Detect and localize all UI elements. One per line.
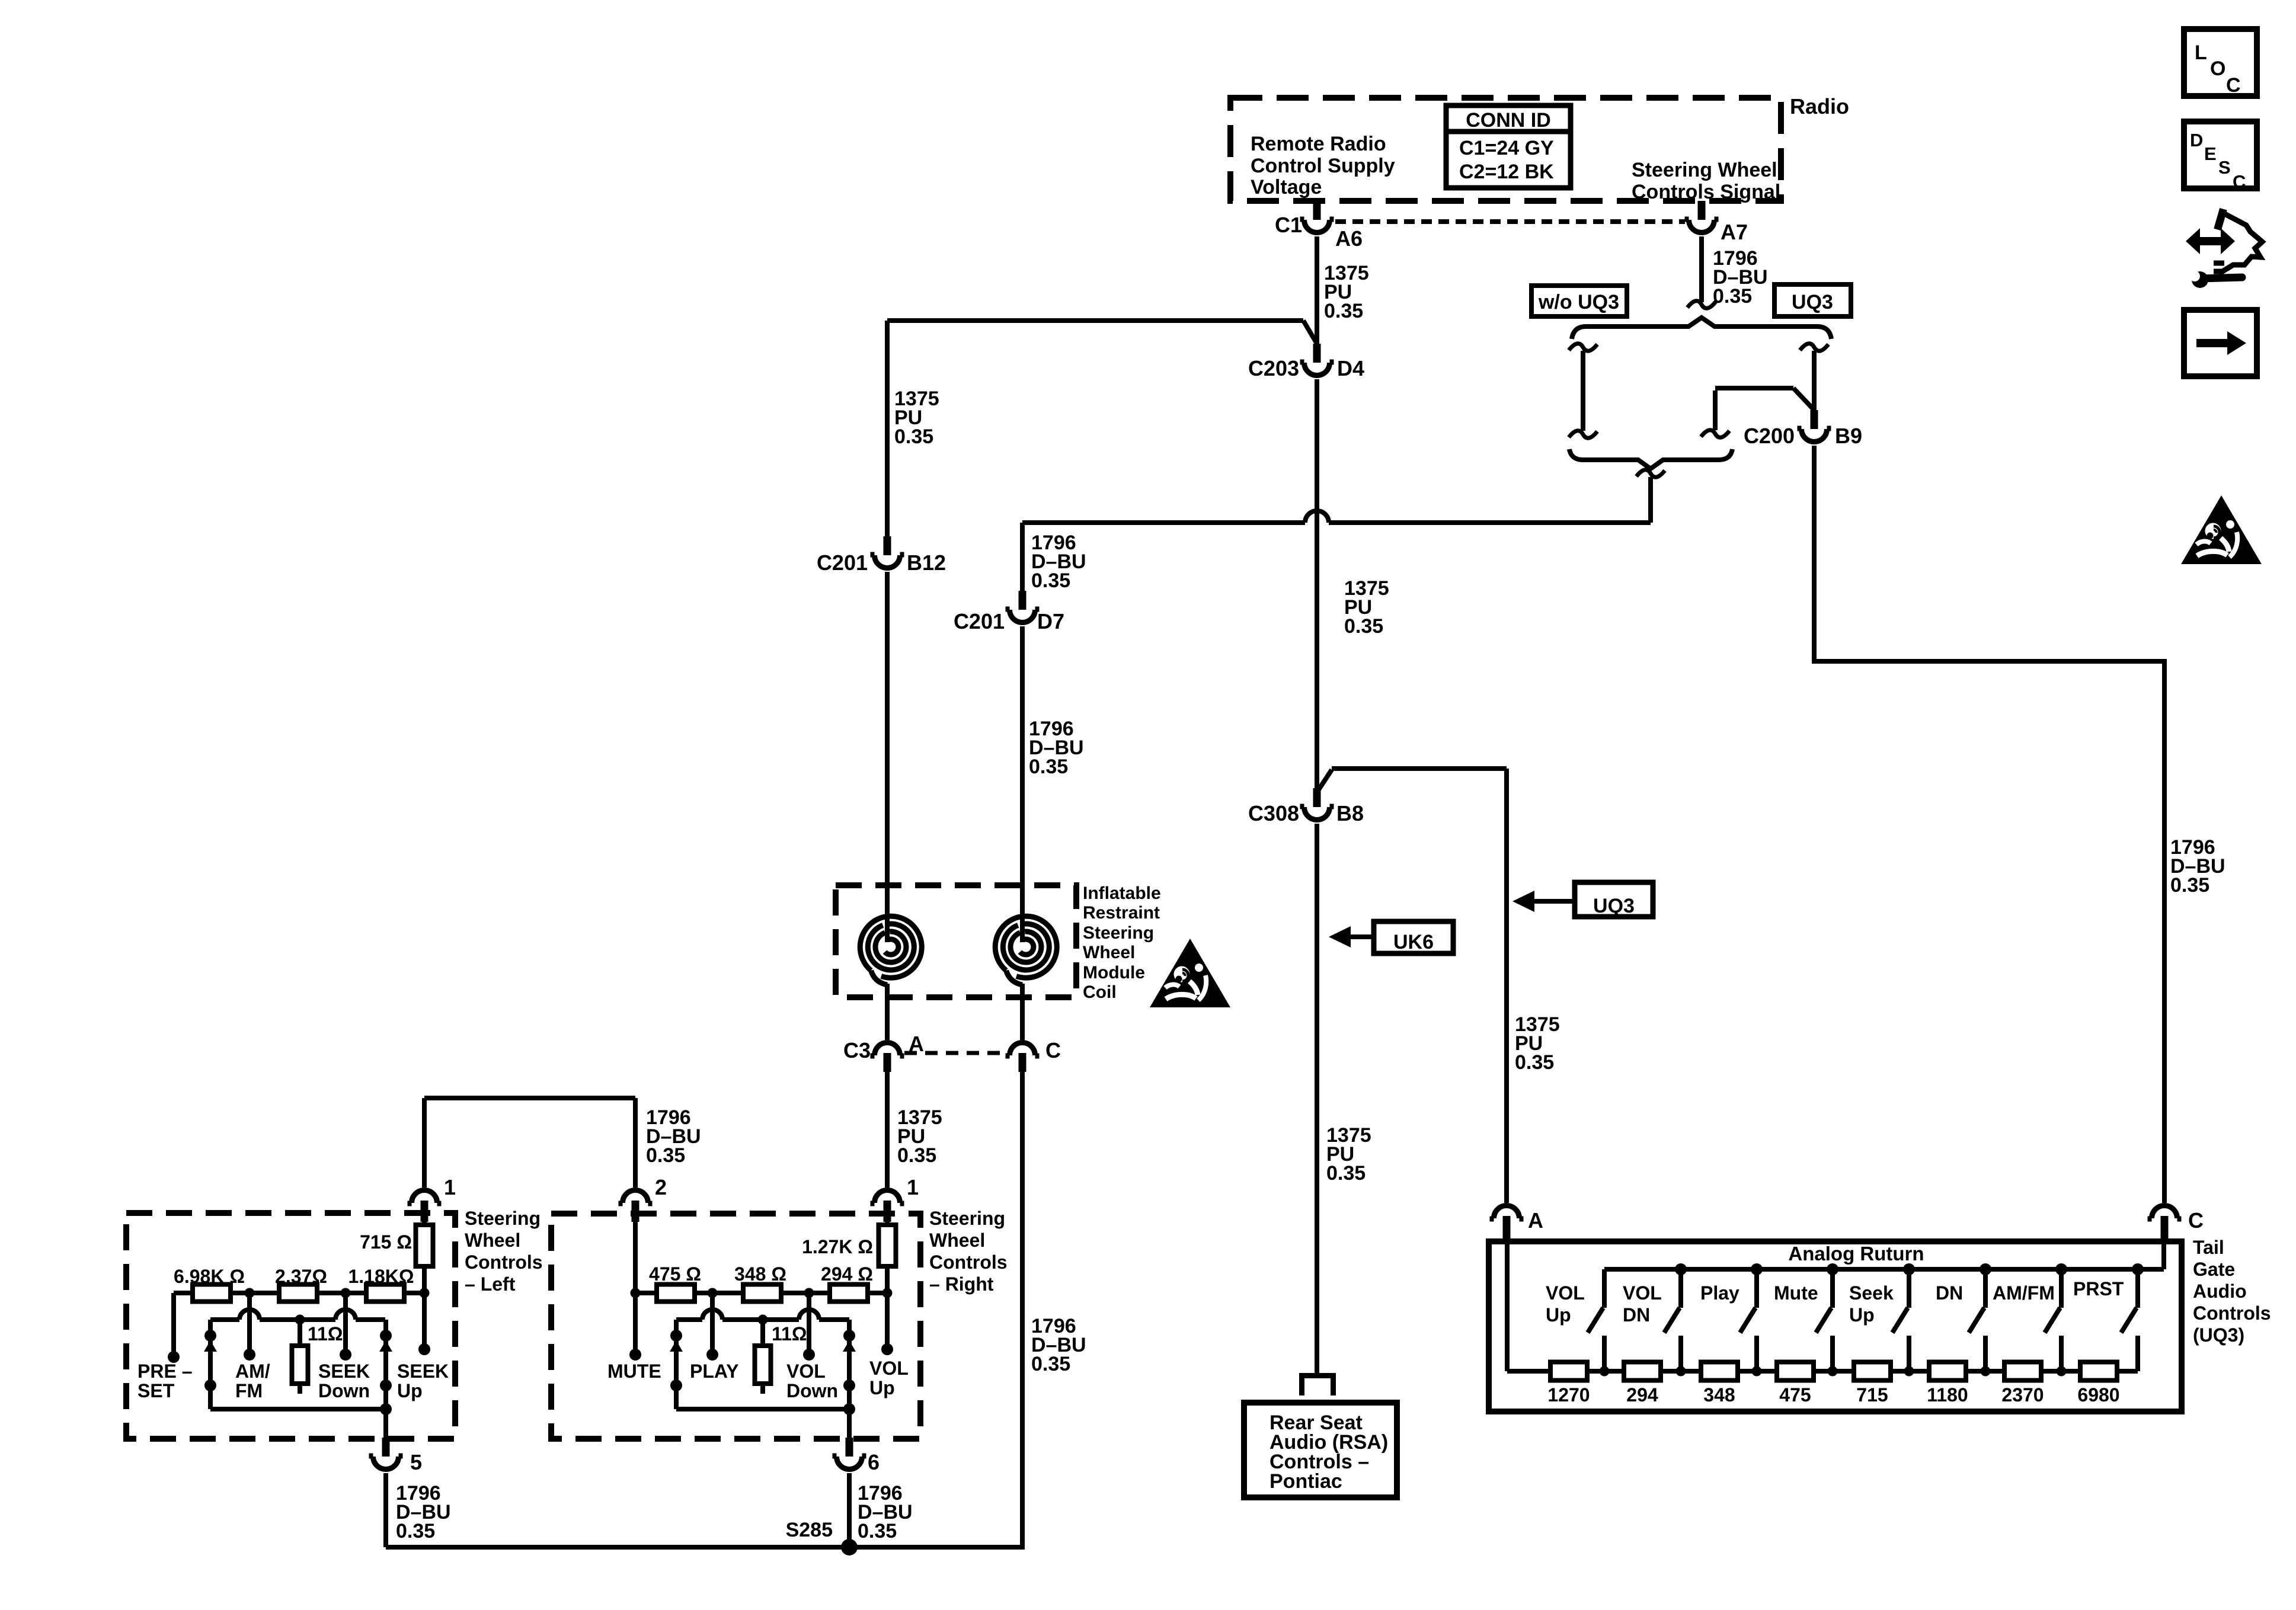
svg-text:0.35: 0.35	[1344, 615, 1383, 638]
svg-text:2.37Ω: 2.37Ω	[275, 1266, 327, 1287]
svg-text:VOL: VOL	[869, 1358, 909, 1379]
svg-text:C308: C308	[1248, 801, 1299, 825]
svg-text:Down: Down	[786, 1380, 838, 1401]
svg-text:PLAY: PLAY	[690, 1361, 738, 1382]
svg-text:C1=24 GY: C1=24 GY	[1459, 137, 1554, 159]
svg-text:0.35: 0.35	[1515, 1051, 1554, 1074]
svg-text:1: 1	[444, 1175, 456, 1199]
svg-text:Restraint: Restraint	[1083, 903, 1160, 923]
svg-text:Remote Radio: Remote Radio	[1251, 133, 1386, 155]
svg-text:0.35: 0.35	[858, 1520, 897, 1542]
svg-text:0.35: 0.35	[396, 1520, 435, 1542]
svg-text:PRE –: PRE –	[137, 1361, 192, 1382]
svg-text:AM/FM: AM/FM	[1993, 1282, 2055, 1304]
svg-text:2: 2	[655, 1175, 667, 1199]
svg-text:AM/: AM/	[235, 1361, 270, 1382]
svg-text:B12: B12	[907, 550, 946, 575]
svg-text:A: A	[1528, 1208, 1543, 1233]
svg-text:0.35: 0.35	[894, 425, 933, 448]
svg-text:Up: Up	[1849, 1304, 1875, 1326]
svg-text:DN: DN	[1936, 1282, 1963, 1304]
svg-text:UK6: UK6	[1393, 931, 1434, 953]
svg-text:Steering: Steering	[929, 1208, 1005, 1229]
svg-text:CONN ID: CONN ID	[1466, 109, 1551, 132]
svg-text:VOL: VOL	[1546, 1282, 1585, 1304]
svg-text:Radio: Radio	[1790, 94, 1849, 119]
svg-text:Wheel: Wheel	[465, 1230, 520, 1251]
svg-text:Controls: Controls	[465, 1251, 543, 1273]
svg-text:A7: A7	[1721, 220, 1748, 244]
svg-text:Steering Wheel: Steering Wheel	[1632, 159, 1777, 181]
svg-text:Voltage: Voltage	[1251, 176, 1322, 199]
svg-text:B9: B9	[1835, 424, 1862, 448]
svg-text:C: C	[1045, 1038, 1061, 1062]
svg-text:C201: C201	[817, 550, 868, 575]
svg-text:Seek: Seek	[1849, 1282, 1894, 1304]
svg-text:C201: C201	[954, 609, 1005, 633]
svg-text:PRST: PRST	[2073, 1278, 2124, 1299]
svg-text:11Ω: 11Ω	[308, 1323, 343, 1345]
svg-text:5: 5	[410, 1450, 422, 1474]
svg-text:E: E	[2204, 143, 2217, 164]
svg-text:0.35: 0.35	[1326, 1162, 1366, 1185]
svg-text:6980: 6980	[2077, 1384, 2119, 1406]
svg-text:O: O	[2210, 57, 2225, 80]
svg-text:D4: D4	[1337, 356, 1364, 380]
svg-text:C1: C1	[1275, 213, 1302, 237]
svg-text:SET: SET	[137, 1380, 175, 1401]
svg-text:0.35: 0.35	[1031, 569, 1070, 592]
svg-text:Pontiac: Pontiac	[1269, 1470, 1342, 1493]
svg-text:Play: Play	[1700, 1282, 1739, 1304]
svg-text:Down: Down	[318, 1380, 370, 1401]
svg-text:2370: 2370	[2001, 1384, 2044, 1406]
svg-text:VOL: VOL	[1623, 1282, 1662, 1304]
svg-text:MUTE: MUTE	[607, 1361, 661, 1382]
svg-text:Control Supply: Control Supply	[1251, 155, 1395, 177]
svg-text:715 Ω: 715 Ω	[360, 1231, 412, 1253]
svg-text:Wheel: Wheel	[929, 1230, 985, 1251]
svg-text:Module: Module	[1083, 963, 1145, 982]
svg-text:C: C	[2226, 74, 2241, 97]
svg-text:Audio: Audio	[2193, 1281, 2247, 1302]
svg-text:0.35: 0.35	[1031, 1353, 1070, 1375]
svg-text:1: 1	[907, 1175, 919, 1199]
svg-text:Coil: Coil	[1083, 982, 1117, 1002]
svg-text:w/o UQ3: w/o UQ3	[1538, 291, 1619, 313]
svg-text:0.35: 0.35	[1713, 285, 1752, 308]
svg-text:DN: DN	[1623, 1304, 1650, 1326]
svg-text:1270: 1270	[1547, 1384, 1590, 1406]
svg-text:475: 475	[1779, 1384, 1811, 1406]
svg-text:B8: B8	[1336, 801, 1364, 825]
svg-text:Up: Up	[397, 1380, 423, 1401]
svg-text:SEEK: SEEK	[397, 1361, 449, 1382]
svg-text:A6: A6	[1335, 226, 1363, 251]
svg-text:VOL: VOL	[786, 1361, 826, 1382]
svg-text:0.35: 0.35	[1029, 756, 1068, 778]
svg-text:(UQ3): (UQ3)	[2193, 1324, 2244, 1346]
svg-text:Controls: Controls	[2193, 1302, 2271, 1324]
svg-text:348 Ω: 348 Ω	[734, 1263, 786, 1285]
svg-text:1.27K Ω: 1.27K Ω	[802, 1236, 873, 1257]
svg-text:1.18KΩ: 1.18KΩ	[348, 1266, 414, 1287]
svg-text:UQ3: UQ3	[1593, 895, 1635, 917]
svg-text:Mute: Mute	[1774, 1282, 1818, 1304]
svg-text:Inflatable: Inflatable	[1083, 884, 1161, 903]
svg-text:294: 294	[1626, 1384, 1658, 1406]
svg-text:S285: S285	[786, 1519, 833, 1541]
svg-text:Controls: Controls	[929, 1251, 1008, 1273]
svg-text:C: C	[2233, 171, 2246, 192]
svg-text:715: 715	[1856, 1384, 1888, 1406]
svg-text:Wheel: Wheel	[1083, 943, 1135, 962]
svg-text:C: C	[2188, 1208, 2204, 1233]
svg-text:0.35: 0.35	[1324, 300, 1363, 322]
svg-text:FM: FM	[235, 1380, 263, 1401]
svg-text:– Left: – Left	[465, 1273, 516, 1295]
svg-text:UQ3: UQ3	[1792, 291, 1833, 313]
svg-text:C3: C3	[843, 1038, 871, 1062]
svg-text:Up: Up	[869, 1377, 895, 1398]
svg-text:Steering: Steering	[465, 1208, 541, 1229]
svg-text:Analog Ruturn: Analog Ruturn	[1788, 1243, 1924, 1265]
svg-text:0.35: 0.35	[646, 1144, 685, 1167]
svg-text:1180: 1180	[1927, 1384, 1968, 1406]
svg-text:Tail: Tail	[2193, 1237, 2224, 1258]
svg-text:S: S	[2218, 157, 2231, 178]
svg-text:0.35: 0.35	[897, 1144, 936, 1167]
svg-text:475 Ω: 475 Ω	[649, 1263, 701, 1285]
svg-text:C200: C200	[1744, 424, 1795, 448]
svg-text:0.35: 0.35	[2170, 874, 2209, 897]
svg-text:– Right: – Right	[929, 1273, 994, 1295]
svg-text:11Ω: 11Ω	[772, 1323, 807, 1345]
svg-text:SEEK: SEEK	[318, 1361, 370, 1382]
svg-text:Gate: Gate	[2193, 1259, 2235, 1280]
svg-text:6.98K Ω: 6.98K Ω	[174, 1266, 245, 1287]
svg-text:6: 6	[868, 1450, 880, 1474]
svg-text:294 Ω: 294 Ω	[821, 1263, 873, 1285]
svg-text:Controls Signal: Controls Signal	[1632, 181, 1780, 203]
svg-text:Up: Up	[1546, 1304, 1571, 1326]
svg-text:Steering: Steering	[1083, 923, 1154, 943]
svg-text:348: 348	[1703, 1384, 1735, 1406]
svg-text:C203: C203	[1248, 356, 1299, 380]
svg-text:D7: D7	[1037, 609, 1064, 633]
svg-text:L: L	[2195, 41, 2207, 64]
svg-text:D: D	[2190, 130, 2203, 151]
svg-text:C2=12 BK: C2=12 BK	[1459, 161, 1554, 183]
